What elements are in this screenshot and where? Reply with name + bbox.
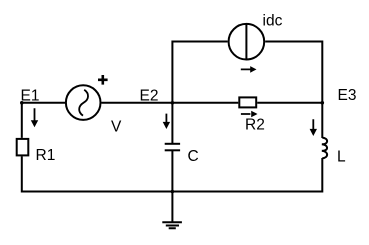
capacitor C top plate bbox=[165, 143, 180, 145]
wire node E2 to R2 bbox=[172, 102, 238, 104]
current arrow at R2 bbox=[241, 111, 258, 118]
voltage source V sine wave bbox=[79, 90, 88, 116]
current arrow at E1 bbox=[31, 108, 38, 127]
svg-text:L: L bbox=[337, 148, 346, 165]
svg-text:E2: E2 bbox=[140, 87, 159, 104]
wire voltage source to node E2 bbox=[102, 102, 173, 104]
current arrow at E3 bbox=[310, 119, 317, 136]
wire voltage source to node E1 and down to R1 bbox=[22, 103, 65, 138]
wire E3 down to inductor bbox=[321, 103, 323, 138]
resistor R2 body bbox=[239, 97, 256, 107]
svg-text:C: C bbox=[188, 148, 199, 165]
inductor L coil bbox=[322, 138, 327, 159]
svg-text:E3: E3 bbox=[338, 87, 357, 104]
wire R1 down along bottom and up to inductor bbox=[22, 156, 323, 191]
wire node E2 up and to current source bbox=[172, 42, 227, 103]
wire capacitor to ground bbox=[171, 150, 173, 222]
ground symbol bbox=[162, 222, 182, 228]
wire E2 down to capacitor bbox=[171, 103, 173, 144]
current source idc circle bbox=[229, 24, 265, 60]
bottom junction dot bbox=[171, 190, 175, 194]
voltage source plus sign bbox=[98, 75, 108, 85]
node E1 junction dot bbox=[20, 101, 24, 105]
node E3 junction dot bbox=[321, 101, 325, 105]
current source idc vertical bar bbox=[245, 24, 247, 60]
capacitor C bottom plate bbox=[165, 149, 180, 151]
resistor R1 body bbox=[17, 139, 29, 156]
svg-text:idc: idc bbox=[263, 13, 283, 30]
wire R2 to node E3 bbox=[257, 102, 322, 104]
current arrow at idc bbox=[241, 66, 257, 73]
current arrow at E2 bbox=[163, 114, 170, 129]
svg-text:R2: R2 bbox=[245, 117, 265, 134]
node E2 junction dot bbox=[171, 101, 175, 105]
svg-text:R1: R1 bbox=[36, 147, 56, 164]
wire current source to top right corner and down to E3 bbox=[265, 42, 322, 103]
voltage source V circle bbox=[66, 85, 101, 120]
svg-text:E1: E1 bbox=[21, 87, 40, 104]
svg-text:V: V bbox=[111, 118, 122, 135]
